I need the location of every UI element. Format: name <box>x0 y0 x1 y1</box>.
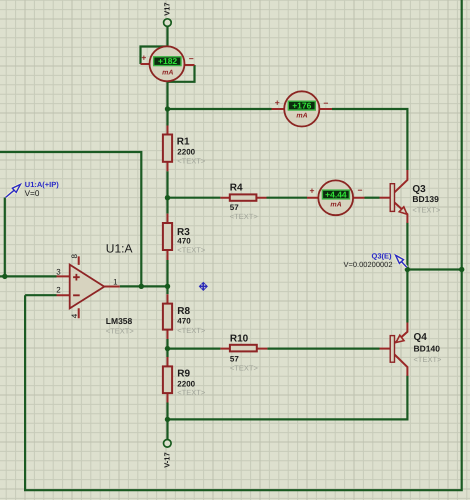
svg-text:1: 1 <box>113 277 118 286</box>
svg-text:+4.44: +4.44 <box>325 190 347 200</box>
svg-text:+: + <box>275 97 280 107</box>
svg-text:<TEXT>: <TEXT> <box>177 245 206 254</box>
svg-text:2: 2 <box>56 285 61 294</box>
svg-text:<TEXT>: <TEXT> <box>230 212 259 221</box>
svg-text:R1: R1 <box>177 137 190 148</box>
svg-text:−: − <box>358 185 363 195</box>
svg-text:−: − <box>323 98 328 108</box>
svg-text:+: + <box>310 186 315 196</box>
svg-text:+182: +182 <box>158 56 177 66</box>
svg-text:BD140: BD140 <box>414 344 441 354</box>
svg-text:470: 470 <box>177 237 191 246</box>
svg-text:U1:A(+IP): U1:A(+IP) <box>25 180 59 189</box>
svg-text:Q3(E): Q3(E) <box>372 251 393 260</box>
svg-text:3: 3 <box>56 267 61 276</box>
svg-text:+176: +176 <box>292 101 311 111</box>
svg-text:57: 57 <box>230 355 239 364</box>
svg-text:R9: R9 <box>177 369 190 380</box>
svg-text:mA: mA <box>162 69 173 76</box>
svg-text:R8: R8 <box>177 306 190 317</box>
svg-text:<TEXT>: <TEXT> <box>177 326 206 335</box>
svg-text:<TEXT>: <TEXT> <box>230 364 259 373</box>
svg-text:mA: mA <box>296 112 307 119</box>
svg-text:V=0: V=0 <box>25 189 40 198</box>
svg-text:2200: 2200 <box>177 147 195 156</box>
svg-text:R10: R10 <box>230 334 249 345</box>
svg-text:V17: V17 <box>163 2 172 15</box>
svg-text:U1:A: U1:A <box>106 242 133 256</box>
svg-text:mA: mA <box>330 202 341 209</box>
svg-text:R4: R4 <box>230 183 243 194</box>
svg-text:<TEXT>: <TEXT> <box>106 326 135 335</box>
svg-text:<TEXT>: <TEXT> <box>177 156 206 165</box>
svg-text:LM358: LM358 <box>106 316 133 326</box>
svg-text:V=0.00200002: V=0.00200002 <box>344 260 393 269</box>
svg-text:470: 470 <box>177 317 191 326</box>
svg-text:Q4: Q4 <box>414 332 428 343</box>
svg-text:<TEXT>: <TEXT> <box>414 355 443 364</box>
svg-text:4: 4 <box>70 313 79 318</box>
svg-text:−: − <box>189 54 194 64</box>
svg-text:<TEXT>: <TEXT> <box>177 388 206 397</box>
svg-text:+: + <box>141 53 146 63</box>
svg-text:57: 57 <box>230 203 239 212</box>
svg-text:<TEXT>: <TEXT> <box>412 205 441 214</box>
svg-text:BD139: BD139 <box>412 194 439 204</box>
svg-text:V-17: V-17 <box>162 452 171 467</box>
svg-text:8: 8 <box>70 254 79 259</box>
